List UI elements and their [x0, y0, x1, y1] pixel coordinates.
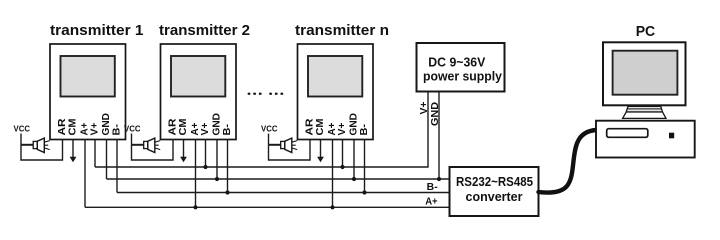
- transmitter 2 body box: [161, 44, 237, 140]
- power supply box: [417, 43, 505, 92]
- transmitter n V+ pin wire: [342, 140, 344, 168]
- svg-text:B-: B-: [112, 124, 123, 136]
- transmitter n body box: [298, 44, 374, 140]
- transmitter 2 VCC wire to AR pin: [132, 134, 174, 161]
- transmitter 1 V+ pin wire: [94, 140, 96, 168]
- transmitter 2 A+ pin wire: [195, 140, 197, 208]
- transmitter 2 sensor plug: [144, 138, 161, 152]
- transmitter 1 body box: [50, 44, 126, 140]
- svg-text:DC 9~36V: DC 9~36V: [428, 55, 485, 70]
- V+ bus wire: [95, 92, 428, 167]
- transmitter 1 GND pin wire: [106, 140, 108, 180]
- svg-text:CM: CM: [178, 119, 189, 136]
- svg-text:CM: CM: [68, 119, 79, 136]
- GND bus wire: [107, 178, 450, 180]
- PC monitor screen: [613, 51, 678, 95]
- transmitter n GND pin wire: [353, 140, 355, 180]
- transmitter 2 plug cord wire: [132, 144, 145, 146]
- junction Tn GND on GND bus: [352, 177, 356, 181]
- power supply GND pin wire: [438, 92, 440, 179]
- svg-text:A+: A+: [425, 196, 438, 207]
- transmitter 1 sensor plug: [33, 138, 50, 152]
- transmitter 1 VCC wire to AR pin: [21, 134, 63, 161]
- transmitter 2 display screen: [171, 56, 225, 97]
- transmitter n display screen: [308, 56, 362, 97]
- transmitter n sensor plug: [281, 138, 298, 152]
- transmitter 2 B- pin wire: [227, 140, 229, 193]
- svg-text:PC: PC: [636, 24, 656, 40]
- svg-text:AR: AR: [305, 119, 316, 136]
- transmitter n CM pin wire: [320, 140, 322, 158]
- B- bus wire: [117, 192, 450, 194]
- junction T2 GND on GND bus: [215, 177, 219, 181]
- transmitter 1 B- pin wire: [116, 140, 118, 193]
- svg-text:AR: AR: [168, 119, 179, 136]
- svg-text:GND: GND: [349, 113, 360, 136]
- transmitter 2 GND pin wire: [216, 140, 218, 180]
- transmitter 1 CM pin wire: [72, 140, 74, 158]
- junction T2 A+ on A+ bus: [193, 205, 197, 209]
- svg-text:B-: B-: [427, 182, 438, 193]
- A+ bus wire: [85, 206, 450, 208]
- transmitter 1 plug cord wire: [21, 144, 34, 146]
- svg-text:V+: V+: [337, 122, 348, 135]
- svg-text:GND: GND: [212, 113, 223, 136]
- svg-text:AR: AR: [57, 119, 68, 136]
- transmitter n A+ pin wire: [332, 140, 334, 208]
- junction Tn B- on B- bus: [362, 190, 366, 194]
- junction power GND on GND bus: [437, 177, 441, 181]
- svg-text:VCC: VCC: [14, 124, 31, 134]
- transmitter n CM ground arrow: [317, 157, 324, 162]
- RS232-RS485 converter box: [450, 167, 539, 216]
- svg-text:RS232~RS485: RS232~RS485: [456, 175, 533, 189]
- transmitter 1 display screen: [61, 56, 115, 97]
- transmitter 2 CM ground arrow: [180, 157, 187, 162]
- transmitter 1 A+ pin wire: [84, 140, 86, 208]
- PC system unit case: [596, 121, 695, 158]
- svg-text:B-: B-: [222, 124, 233, 136]
- svg-text:V+: V+: [200, 122, 211, 135]
- transmitter n plug cord wire: [269, 144, 282, 146]
- PC floppy drive slot: [607, 129, 648, 138]
- svg-text:CM: CM: [315, 119, 326, 136]
- svg-text:power supply: power supply: [423, 69, 503, 84]
- junction Tn V+ on V+ bus: [340, 165, 344, 169]
- svg-text:VCC: VCC: [261, 124, 278, 134]
- svg-text:converter: converter: [466, 189, 523, 204]
- svg-text:transmitter 1: transmitter 1: [50, 23, 144, 39]
- PC power button: [669, 133, 674, 139]
- junction Tn A+ on A+ bus: [330, 205, 334, 209]
- svg-text:V+: V+: [419, 101, 430, 114]
- svg-text:B-: B-: [359, 124, 370, 136]
- svg-text:transmitter n: transmitter n: [295, 23, 389, 39]
- svg-text:GND: GND: [430, 102, 441, 126]
- ellipsis between transmitter 2 and transmitter n: [248, 93, 284, 95]
- junction T2 V+ on V+ bus: [203, 165, 207, 169]
- transmitter 1 CM ground arrow: [70, 157, 77, 162]
- svg-text:VCC: VCC: [124, 124, 141, 134]
- transmitter 2 CM pin wire: [183, 140, 185, 158]
- transmitter 2 V+ pin wire: [205, 140, 207, 168]
- junction T2 B- on B- bus: [225, 190, 229, 194]
- PC monitor stand: [623, 106, 666, 118]
- transmitter n B- pin wire: [364, 140, 366, 193]
- svg-text:GND: GND: [101, 113, 112, 136]
- serial cable converter to PC: [539, 130, 597, 193]
- svg-text:transmitter 2: transmitter 2: [159, 23, 250, 39]
- transmitter n VCC wire to AR pin: [269, 134, 311, 161]
- PC monitor frame: [603, 42, 686, 105]
- svg-text:V+: V+: [90, 122, 101, 135]
